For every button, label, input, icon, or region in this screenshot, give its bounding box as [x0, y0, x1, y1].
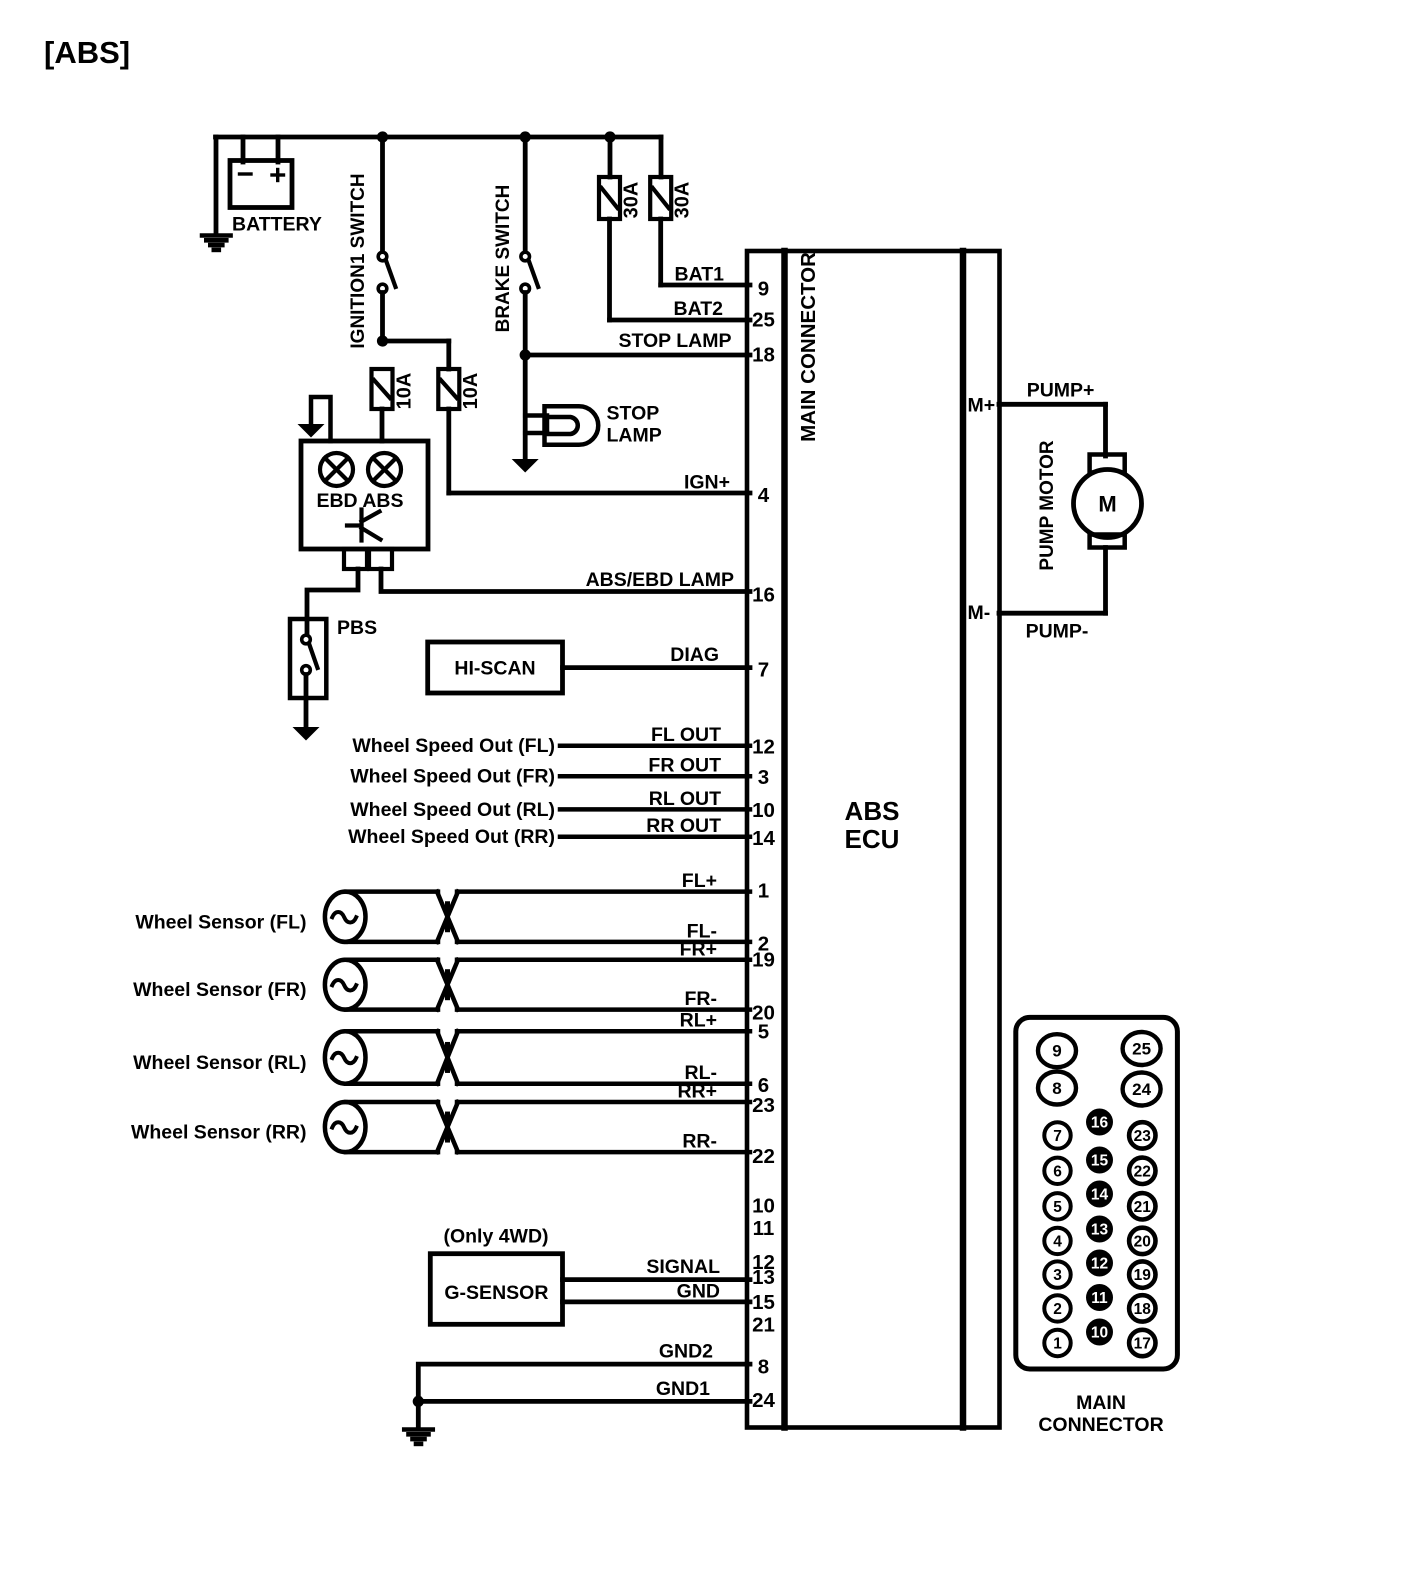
svg-text:25: 25 [1132, 1040, 1151, 1059]
wire M- / PUMP- [1103, 548, 1108, 614]
wire GND1 to pin 24 [418, 1399, 750, 1404]
svg-text:10: 10 [1091, 1325, 1108, 1342]
sensor Wheel Sensor (RL) [325, 1031, 750, 1084]
wire to brake switch [523, 137, 528, 253]
switch IGNITION1 SWITCH [378, 252, 395, 293]
junction ignition branch [377, 131, 388, 142]
connector pin 1 [1044, 1330, 1070, 1356]
svg-text:12: 12 [752, 736, 775, 759]
svg-text:11: 11 [753, 1217, 775, 1240]
G-SENSOR [430, 1254, 562, 1325]
svg-text:6: 6 [1053, 1163, 1062, 1180]
svg-text:Wheel Sensor (RR): Wheel Sensor (RR) [131, 1122, 307, 1144]
svg-text:(Only 4WD): (Only 4WD) [443, 1226, 548, 1248]
connector pin 7 [1044, 1122, 1070, 1148]
svg-text:RL+: RL+ [680, 1010, 717, 1032]
fuse F1 10A [372, 369, 416, 409]
wire to 30A fuse 2 [659, 137, 664, 177]
main connector pin strip divider [781, 251, 788, 1428]
wire battery negative to ground [214, 137, 219, 234]
svg-text:FR-: FR- [685, 988, 718, 1010]
main connector face [1016, 1017, 1178, 1369]
wire SIGNAL to pin 13 [563, 1277, 751, 1282]
connector pin 11 [1086, 1284, 1113, 1311]
wire to 30A fuse 1 [608, 137, 613, 177]
svg-text:14: 14 [752, 827, 775, 850]
svg-text:7: 7 [758, 659, 769, 682]
motor M pump [1074, 470, 1142, 538]
svg-text:STOP: STOP [607, 403, 660, 425]
svg-text:30A: 30A [621, 182, 643, 219]
svg-text:3: 3 [1053, 1267, 1062, 1284]
svg-text:8: 8 [758, 1356, 769, 1379]
junction 10A fuses [377, 335, 388, 346]
ground arrow EBD module [311, 397, 331, 441]
svg-text:9: 9 [1052, 1042, 1061, 1061]
svg-text:13: 13 [752, 1266, 775, 1289]
svg-text:Wheel Sensor (FR): Wheel Sensor (FR) [133, 979, 306, 1001]
ground PBS arrow [293, 727, 320, 741]
svg-text:8: 8 [1052, 1079, 1061, 1098]
connector pin 6 [1044, 1158, 1070, 1184]
wire branch to second 10A fuse [383, 339, 449, 344]
wire stop lamp prong bottom [525, 431, 547, 436]
fuse F3 30A [599, 177, 643, 219]
connector pin 17 [1129, 1330, 1155, 1356]
sensor Wheel Sensor (FL) [325, 892, 750, 942]
svg-text:18: 18 [1134, 1301, 1152, 1318]
connector pin 20 [1129, 1228, 1155, 1254]
junction fuse branch [604, 131, 615, 142]
svg-text:9: 9 [758, 278, 769, 301]
lamp STOP LAMP bulb [545, 406, 599, 445]
pump motor terminal bottom [1090, 535, 1125, 548]
svg-text:24: 24 [1132, 1080, 1151, 1099]
svg-text:1: 1 [1053, 1336, 1062, 1353]
svg-text:30A: 30A [672, 182, 694, 219]
svg-text:Wheel Sensor (RL): Wheel Sensor (RL) [133, 1052, 306, 1074]
svg-text:22: 22 [752, 1145, 775, 1168]
wire ignition switch to fuses [380, 293, 385, 342]
pump motor terminal top [1090, 455, 1125, 473]
svg-text:GND2: GND2 [659, 1341, 713, 1363]
svg-text:STOP LAMP: STOP LAMP [618, 330, 731, 352]
svg-text:IGN+: IGN+ [684, 472, 730, 494]
wire FL OUT [560, 743, 750, 748]
connector pin 2 [1044, 1295, 1070, 1321]
sensor Wheel Sensor (FR) [325, 960, 750, 1010]
wire 10A fuse to IGN+ [446, 409, 451, 493]
wire M+ / PUMP+ [999, 402, 1106, 407]
svg-text:4: 4 [1053, 1233, 1062, 1250]
svg-text:G-SENSOR: G-SENSOR [444, 1282, 548, 1304]
wire PBS to ground [304, 675, 309, 727]
svg-text:14: 14 [1091, 1187, 1109, 1204]
svg-text:21: 21 [1134, 1199, 1152, 1216]
svg-text:4: 4 [758, 484, 770, 507]
battery [230, 161, 292, 208]
svg-text:RR OUT: RR OUT [646, 815, 721, 837]
connector pin 14 [1086, 1181, 1113, 1208]
fuse F2 10A [438, 369, 482, 409]
EBD/ABS warning lamp module [301, 441, 428, 549]
svg-text:RR-: RR- [682, 1131, 717, 1153]
wire STOP LAMP to pin 18 [525, 353, 750, 358]
svg-text:13: 13 [1091, 1222, 1109, 1239]
svg-text:19: 19 [1134, 1267, 1152, 1284]
wire FR OUT [560, 774, 750, 779]
connector pin 16 [1086, 1109, 1113, 1136]
svg-text:DIAG: DIAG [670, 644, 719, 666]
svg-text:LAMP: LAMP [607, 425, 662, 447]
svg-text:ECU: ECU [845, 824, 900, 854]
svg-text:[ABS]: [ABS] [44, 35, 130, 70]
svg-text:BAT2: BAT2 [674, 298, 724, 320]
connector pin 8 [1038, 1072, 1076, 1105]
svg-text:12: 12 [1091, 1256, 1108, 1273]
ground earth GND [404, 1427, 433, 1432]
svg-text:FL+: FL+ [682, 870, 717, 892]
svg-text:10A: 10A [394, 373, 416, 410]
connector pin 21 [1129, 1193, 1155, 1219]
svg-text:IGNITION1 SWITCH: IGNITION1 SWITCH [348, 173, 369, 348]
connector pin 25 [1123, 1032, 1161, 1065]
svg-text:Wheel Speed Out (FL): Wheel Speed Out (FL) [352, 735, 555, 757]
svg-text:FR OUT: FR OUT [648, 755, 721, 777]
svg-text:20: 20 [1134, 1233, 1151, 1250]
connector pin 18 [1129, 1295, 1155, 1321]
svg-text:Wheel Speed Out (RL): Wheel Speed Out (RL) [350, 799, 555, 821]
lamp ABS [368, 453, 401, 486]
junction stop lamp node [520, 349, 531, 360]
svg-text:MAIN: MAIN [1076, 1392, 1126, 1414]
svg-text:10: 10 [752, 799, 775, 822]
svg-text:RL OUT: RL OUT [649, 788, 721, 810]
svg-text:10A: 10A [460, 373, 482, 410]
svg-text:24: 24 [752, 1389, 775, 1412]
ABS ECU outer box [747, 251, 1000, 1428]
svg-text:7: 7 [1053, 1128, 1062, 1145]
svg-text:BRAKE SWITCH: BRAKE SWITCH [493, 185, 514, 333]
svg-text:M+: M+ [968, 395, 996, 417]
svg-text:Wheel Speed Out (FR): Wheel Speed Out (FR) [350, 766, 555, 788]
svg-text:Wheel Speed Out (RR): Wheel Speed Out (RR) [348, 826, 555, 848]
connector pin 15 [1086, 1147, 1113, 1174]
connector pin 22 [1129, 1158, 1155, 1184]
svg-text:PUMP MOTOR: PUMP MOTOR [1037, 440, 1058, 570]
wire DIAG to pin 7 [563, 665, 751, 670]
wire GND2 to pin 8 [418, 1364, 750, 1427]
svg-text:22: 22 [1134, 1163, 1151, 1180]
svg-text:PUMP-: PUMP- [1026, 621, 1089, 643]
svg-text:RR+: RR+ [677, 1081, 717, 1103]
svg-text:PUMP+: PUMP+ [1027, 380, 1095, 402]
connector pin 3 [1044, 1261, 1070, 1287]
wire top supply rail [216, 135, 662, 140]
wire BAT1 [658, 219, 663, 285]
svg-text:PBS: PBS [337, 617, 377, 639]
svg-text:ABS: ABS [845, 796, 900, 826]
svg-text:M: M [1098, 492, 1116, 517]
svg-text:ABS/EBD LAMP: ABS/EBD LAMP [586, 569, 734, 591]
switch BRAKE SWITCH [521, 252, 538, 293]
svg-text:23: 23 [1134, 1128, 1152, 1145]
connector pin 4 [1044, 1228, 1070, 1254]
svg-text:MAIN CONNECTOR: MAIN CONNECTOR [797, 252, 820, 442]
svg-text:SIGNAL: SIGNAL [646, 1256, 720, 1278]
motor pin strip divider [960, 251, 967, 1428]
svg-text:M-: M- [968, 602, 991, 624]
svg-text:25: 25 [752, 309, 775, 332]
svg-text:FR+: FR+ [680, 938, 717, 960]
wire RL OUT [560, 807, 750, 812]
svg-text:3: 3 [758, 766, 769, 789]
svg-text:FL OUT: FL OUT [651, 724, 721, 746]
svg-text:CONNECTOR: CONNECTOR [1038, 1414, 1163, 1436]
sensor Wheel Sensor (RR) [325, 1102, 750, 1152]
svg-text:16: 16 [752, 584, 775, 607]
svg-text:2: 2 [1053, 1301, 1062, 1318]
switch PBS [290, 619, 326, 698]
svg-text:5: 5 [758, 1021, 769, 1044]
svg-text:GND: GND [677, 1281, 720, 1303]
svg-text:18: 18 [752, 344, 775, 367]
connector pin 24 [1123, 1073, 1161, 1106]
svg-text:10: 10 [752, 1195, 775, 1218]
svg-text:23: 23 [752, 1094, 775, 1117]
svg-text:BATTERY: BATTERY [232, 214, 322, 236]
ground stop lamp arrow [512, 459, 539, 473]
wire ABS/EBD LAMP to pin 16 [381, 569, 750, 592]
connector pin 9 [1038, 1034, 1076, 1067]
junction brake branch [520, 131, 531, 142]
EBD box terminal left [344, 549, 367, 569]
connector pin 19 [1129, 1261, 1155, 1287]
wire IGN+ to pin 4 [449, 491, 750, 496]
wire GND to pin 15 [563, 1300, 751, 1305]
wire to stop lamp bulb [523, 355, 528, 458]
symbol lamp check [347, 510, 381, 541]
svg-text:Wheel Sensor (FL): Wheel Sensor (FL) [135, 911, 306, 933]
svg-text:21: 21 [752, 1313, 775, 1336]
EBD box terminal right [369, 549, 392, 569]
connector pin 13 [1086, 1216, 1113, 1243]
connector pin 10 [1086, 1319, 1113, 1346]
svg-text:15: 15 [752, 1291, 775, 1314]
wire stop lamp prong top [525, 413, 547, 418]
svg-text:1: 1 [758, 880, 769, 903]
wire battery negative terminal [241, 137, 246, 162]
wire RR OUT [560, 834, 750, 839]
svg-text:BAT1: BAT1 [675, 264, 725, 286]
svg-text:HI-SCAN: HI-SCAN [454, 658, 535, 680]
fuse F4 30A [650, 177, 693, 219]
wire 10A fuse to EBD/ABS lamp box [380, 409, 385, 441]
wire to ignition switch [380, 137, 385, 253]
wire battery positive terminal [276, 137, 281, 162]
connector pin 23 [1129, 1122, 1155, 1148]
ground battery earth [202, 233, 231, 238]
wire EBD terminal to PBS [307, 569, 358, 635]
wire BAT2 [607, 219, 612, 320]
HI-SCAN tool [428, 642, 563, 693]
svg-text:11: 11 [1091, 1290, 1108, 1307]
svg-text:16: 16 [1091, 1115, 1109, 1132]
junction GND1/GND2 [413, 1396, 424, 1407]
svg-text:15: 15 [1091, 1153, 1109, 1170]
svg-text:5: 5 [1053, 1199, 1062, 1216]
connector pin 12 [1086, 1250, 1113, 1277]
svg-text:19: 19 [752, 949, 775, 972]
svg-text:GND1: GND1 [656, 1378, 710, 1400]
svg-text:17: 17 [1134, 1336, 1151, 1353]
wire brake switch to stop lamp node [523, 293, 528, 356]
connector pin 5 [1044, 1193, 1070, 1219]
lamp EBD [320, 453, 353, 486]
